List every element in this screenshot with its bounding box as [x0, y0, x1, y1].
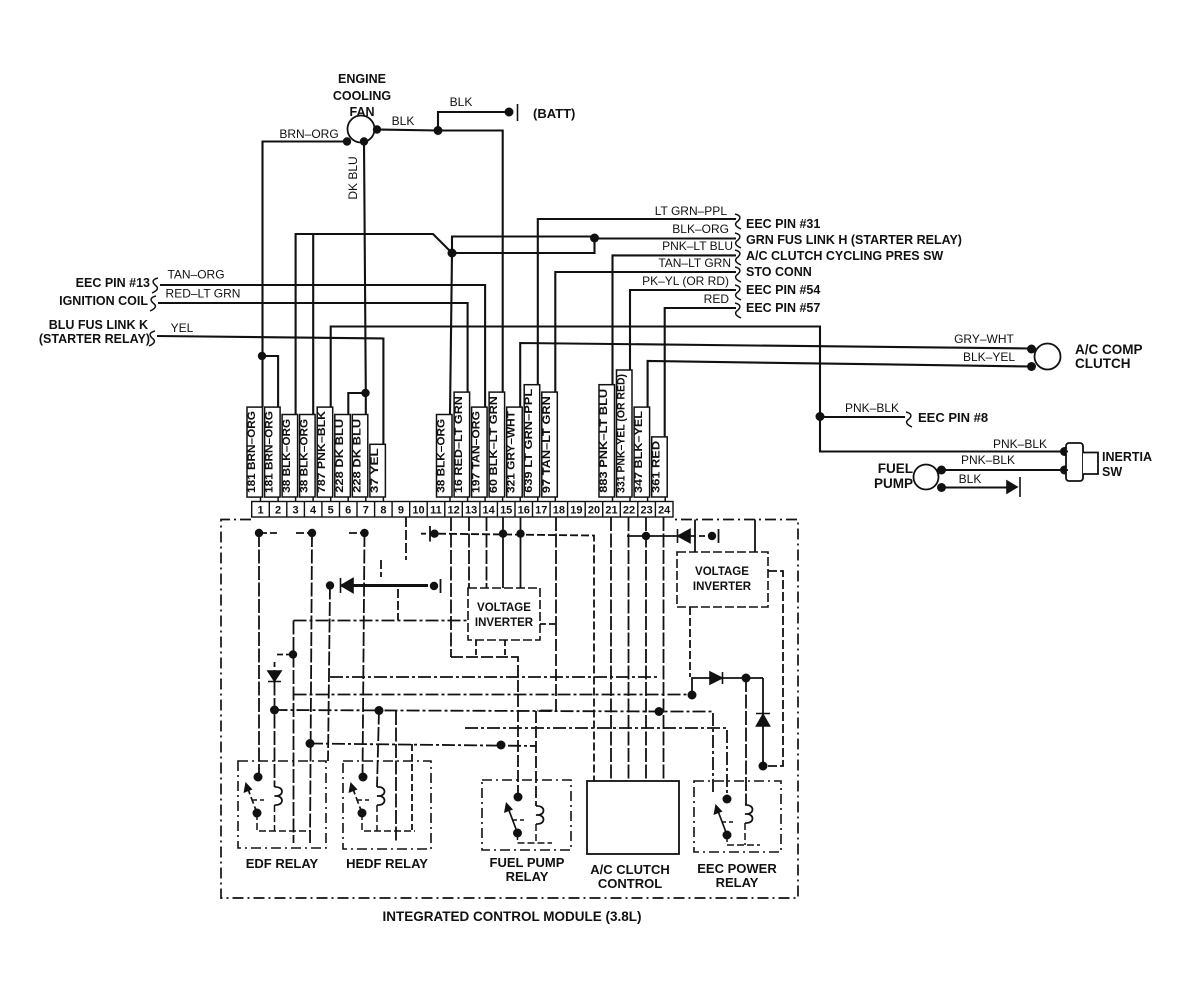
wire U1 bottom stub left — [475, 640, 477, 657]
relay K1 EDF box — [238, 761, 326, 848]
wire U2 feed right from top border — [754, 520, 756, 553]
relay K1 coil — [275, 787, 283, 805]
node diode D1 anode dot — [326, 581, 334, 589]
svg-text:INTEGRATED CONTROL MODULE (3.8: INTEGRATED CONTROL MODULE (3.8L) — [383, 909, 642, 924]
wire riser pin5 extension to EDF box — [328, 586, 330, 762]
wire riser pin23 extension to ACC — [645, 517, 647, 781]
node diode D3 cathode junction — [742, 674, 751, 683]
svg-text:5: 5 — [328, 505, 334, 517]
relay K3 link dash — [513, 819, 526, 821]
wire BLK-ORG junction to pin 11 riser — [450, 253, 452, 414]
wire BLK-ORG junction loop to label — [452, 237, 736, 254]
wire row C dash to diode D3 — [294, 694, 693, 696]
wire TAN-ORG to pin 13 — [160, 285, 485, 407]
svg-text:COOLING: COOLING — [333, 89, 391, 103]
wire fuel pump relay coil feed — [536, 624, 556, 806]
svg-text:PNK–BLK: PNK–BLK — [961, 453, 1015, 467]
svg-text:DK BLU: DK BLU — [346, 156, 360, 199]
node row1 pin1 junction — [255, 529, 263, 537]
node BATT terminal dot — [505, 108, 514, 117]
wire riser pin4 extension to row F — [310, 533, 312, 843]
node row1 pin14 junction — [499, 530, 507, 538]
connector symbol BLU FUS LINK K — [149, 331, 155, 346]
node EEC relay top-right junction — [759, 762, 768, 771]
wire riser pin17 extension to row G — [555, 517, 557, 624]
svg-text:BLK: BLK — [392, 114, 415, 128]
label voltage inverter U1 — [475, 602, 534, 629]
node row F fuel pump junction — [497, 741, 506, 750]
wire row H left riser — [293, 621, 295, 844]
inertia switch SW1 body — [1066, 443, 1083, 481]
svg-text:EEC PIN #31: EEC PIN #31 — [746, 217, 820, 231]
pin label boxes with wire codes — [246, 370, 667, 502]
svg-text:RED–LT GRN: RED–LT GRN — [166, 287, 241, 301]
wire diode D2 to terminal — [690, 535, 707, 537]
terminal bar diode D1 — [440, 579, 442, 593]
svg-text:A/C CLUTCH CYCLING PRES SW: A/C CLUTCH CYCLING PRES SW — [746, 249, 943, 263]
node row D right junction — [655, 707, 664, 716]
relay K2 bottom contact — [358, 809, 367, 818]
node row F left junction — [306, 739, 315, 748]
svg-text:21: 21 — [605, 505, 617, 517]
node riser pin1 junction — [258, 352, 266, 360]
relay K3 bottom contact — [513, 829, 522, 838]
svg-text:STO CONN: STO CONN — [746, 265, 812, 279]
node row1 pin15 junction — [516, 530, 524, 538]
pin number row cells 1-24 — [252, 502, 673, 518]
svg-text:347 BLK–YEL: 347 BLK–YEL — [633, 411, 645, 493]
wire BRN-ORG fan to riser — [263, 142, 348, 408]
wire row F branch into HEDF box — [411, 744, 413, 830]
relay K2 bottom leads — [362, 805, 415, 831]
diode D4 up pointing — [756, 714, 770, 727]
svg-text:PNK–BLK: PNK–BLK — [993, 437, 1047, 451]
wire riser pin14 extension to U1 — [502, 517, 504, 588]
svg-text:TAN–LT GRN: TAN–LT GRN — [658, 256, 731, 270]
A/C comp clutch coil circle — [1035, 344, 1061, 370]
wire GRY-WHT pin 15 to A/C comp clutch — [520, 343, 1031, 407]
connector symbol EEC PIN 57 — [735, 303, 741, 318]
svg-text:EEC PIN #54: EEC PIN #54 — [746, 283, 820, 297]
wire D5 to EDF coil — [274, 682, 276, 788]
ground fuel pump — [1007, 477, 1020, 497]
svg-text:BRN–ORG: BRN–ORG — [279, 127, 338, 141]
svg-text:LT GRN–PPL: LT GRN–PPL — [655, 204, 728, 218]
wire diode D1 dash tail — [424, 585, 430, 587]
node inertia switch upper terminal — [1060, 447, 1069, 456]
wire diode D1 output thick — [353, 584, 428, 587]
wire row1 jumper pin3-pin4 — [296, 532, 312, 534]
relay K1 armature with arrow — [248, 789, 257, 813]
wire riser pin22 extension to ACC — [628, 517, 630, 781]
node row1 right terminal dot — [708, 532, 716, 540]
node fan right terminal — [373, 125, 381, 133]
relay K1 bottom contact — [253, 809, 262, 818]
svg-text:11: 11 — [430, 505, 442, 517]
label A/C CLUTCH CONTROL — [590, 862, 669, 891]
svg-text:INERTIA: INERTIA — [1102, 450, 1152, 464]
wire row1 jumper pin1-pin2 — [259, 532, 277, 534]
wire row1 bus to ACC riser — [438, 534, 594, 781]
wire PK-YL pin 22 to EEC PIN 54 — [630, 290, 736, 370]
relay K2 link dash — [358, 799, 371, 801]
wire row B dash — [330, 676, 660, 678]
battery terminal bar — [517, 104, 519, 121]
wire row D dash — [275, 710, 714, 795]
wire hook to pin 6 riser — [348, 393, 366, 414]
relay K3 fuel pump box — [482, 780, 571, 850]
diode D3 right pointing — [710, 672, 723, 684]
wire TAN-LT GRN pin 17 to STO CONN — [555, 272, 736, 392]
svg-text:BLK–YEL: BLK–YEL — [963, 350, 1015, 364]
svg-text:6: 6 — [345, 505, 351, 517]
svg-text:361 RED: 361 RED — [651, 441, 663, 493]
node row1 pin23 junction — [642, 532, 650, 540]
relay K4 armature with arrow — [718, 811, 727, 835]
label voltage inverter U2 — [693, 566, 752, 593]
svg-text:17: 17 — [535, 505, 547, 517]
node EEC PIN 8 junction — [816, 412, 825, 421]
node diode D1 terminal dot — [430, 582, 438, 590]
relay K1 bottom leads — [257, 805, 310, 831]
svg-text:13: 13 — [465, 505, 477, 517]
node fan BRN-ORG terminal — [343, 137, 351, 145]
connector symbol EEC PIN 31 — [735, 214, 741, 229]
svg-text:A/C COMP: A/C COMP — [1075, 342, 1143, 357]
node BLK-ORG lower junction — [448, 249, 457, 258]
connector symbol GRN FUS LINK H — [735, 233, 741, 248]
relay K4 coil — [745, 805, 753, 823]
svg-text:INVERTER: INVERTER — [693, 581, 752, 593]
wire stub below diode row — [397, 589, 399, 620]
svg-text:37 YEL: 37 YEL — [369, 448, 381, 493]
wire row A to fuel pump relay contact — [451, 657, 518, 797]
node row1 pin4 junction — [308, 529, 316, 537]
svg-text:3: 3 — [293, 505, 299, 517]
label BLU FUS LINK K (STARTER RELAY) — [39, 318, 150, 346]
svg-text:EEC PIN #13: EEC PIN #13 — [76, 276, 150, 290]
wire riser pin21 extension to ACC — [610, 517, 612, 781]
voltage inverter U2 box right — [677, 552, 768, 607]
wire BLK junction down to pin 14 riser — [438, 131, 503, 393]
wire D5 upper stub — [274, 662, 276, 671]
svg-text:24: 24 — [658, 505, 671, 517]
relay K2 coil — [377, 787, 385, 805]
svg-text:321 GRY–WHT: 321 GRY–WHT — [506, 411, 518, 493]
svg-text:IGNITION COIL: IGNITION COIL — [59, 294, 148, 308]
relay K3 armature with arrow — [509, 809, 518, 833]
terminal bar row1 left — [421, 526, 430, 542]
wire stub pin 9-10 area — [405, 517, 407, 560]
relay K3 top contact — [514, 793, 523, 802]
wire PNK-BLK fuel pump to inertia switch — [942, 469, 1065, 471]
svg-text:INVERTER: INVERTER — [475, 617, 534, 629]
relay K2 armature with arrow — [353, 789, 362, 813]
relay K3 coil — [536, 806, 544, 824]
svg-text:8: 8 — [380, 505, 386, 517]
svg-text:RELAY: RELAY — [506, 869, 549, 884]
svg-text:HEDF RELAY: HEDF RELAY — [346, 856, 428, 871]
wire HEDF coil feed — [377, 711, 379, 788]
svg-text:GRY–WHT: GRY–WHT — [954, 332, 1014, 346]
node row H junction — [289, 650, 297, 658]
diode D5 down pointing — [268, 671, 281, 682]
svg-text:10: 10 — [412, 505, 424, 517]
wire BLK-YEL pin 23 to A/C comp clutch — [648, 361, 1031, 407]
wire PNK-BLK pin 5 to EEC PIN 8 junction — [331, 327, 820, 417]
connector symbol STO CONN — [735, 267, 741, 282]
motor M1 fan motor circle — [348, 116, 375, 143]
node BLK-ORG upper junction — [590, 234, 599, 243]
svg-text:1: 1 — [257, 505, 263, 517]
relay K4 bottom contact — [723, 831, 732, 840]
wire riser pin15 extension to U1 — [520, 517, 522, 588]
svg-text:15: 15 — [500, 505, 512, 517]
svg-text:228 DK BLU: 228 DK BLU — [334, 419, 346, 493]
svg-text:639 LT GRN–PPL: 639 LT GRN–PPL — [523, 388, 535, 492]
node inertia switch lower terminal — [1060, 466, 1069, 475]
wire row1 jumper pin6-pin7 — [349, 532, 365, 534]
svg-text:PNK–LT BLU: PNK–LT BLU — [662, 239, 733, 253]
svg-text:(BATT): (BATT) — [533, 106, 575, 121]
svg-text:60 BLK–LT GRN: 60 BLK–LT GRN — [488, 396, 500, 493]
svg-text:CONTROL: CONTROL — [598, 876, 662, 891]
wire row1 right segment — [627, 535, 677, 537]
svg-text:19: 19 — [570, 505, 582, 517]
svg-text:7: 7 — [363, 505, 369, 517]
terminal bar row1 right — [718, 529, 720, 543]
svg-text:FUEL PUMP: FUEL PUMP — [490, 855, 565, 870]
svg-text:331 PNK–YEL (OR RED): 331 PNK–YEL (OR RED) — [616, 374, 628, 493]
wire YEL to pin 8 — [157, 336, 383, 444]
wire row H junction stub — [277, 654, 293, 656]
node A/C clutch lower terminal — [1027, 362, 1036, 371]
label EEC POWER RELAY — [697, 861, 777, 890]
wire riser pin12 extension to U1 — [468, 517, 470, 588]
svg-text:ENGINE: ENGINE — [338, 72, 386, 86]
wire row C up to diode D3 — [692, 678, 710, 695]
relay K2 HEDF box — [343, 761, 431, 849]
wire EEC coil feed from D3 node — [745, 678, 747, 805]
label A/C COMP CLUTCH — [1075, 342, 1143, 371]
svg-text:PNK–BLK: PNK–BLK — [845, 401, 899, 415]
wire diode D3 to node — [723, 677, 763, 679]
wire riser pin13 extension to U1 — [486, 517, 488, 588]
svg-text:BLK: BLK — [450, 95, 473, 109]
svg-text:16 RED–LT GRN: 16 RED–LT GRN — [453, 396, 465, 493]
svg-text:BLK–ORG: BLK–ORG — [672, 222, 729, 236]
svg-text:RELAY: RELAY — [716, 875, 759, 890]
connector symbol ignition coil — [150, 296, 156, 311]
wire U2 feed left from top border — [694, 520, 696, 553]
node fan DK BLU terminal — [360, 137, 368, 145]
wire PNK-BLK junction to EEC PIN 8 — [820, 416, 905, 418]
A/C clutch control box — [587, 781, 679, 854]
svg-text:SW: SW — [1102, 465, 1122, 479]
svg-text:787 PNK–BLK: 787 PNK–BLK — [316, 411, 328, 493]
relay K4 link dash — [722, 821, 735, 823]
svg-text:VOLTAGE: VOLTAGE — [695, 566, 749, 578]
label FUEL PUMP RELAY — [490, 855, 565, 884]
svg-text:(STARTER RELAY): (STARTER RELAY) — [39, 332, 150, 346]
wire BLK-ORG pin 3 and pin 4 riser top — [296, 234, 452, 414]
connector symbol A/C clutch cycling pres sw — [735, 250, 741, 265]
svg-text:PK–YL (OR RD): PK–YL (OR RD) — [642, 274, 729, 288]
wire DK BLU fan to pin 7 riser — [364, 142, 366, 415]
wire hook to pin 2 riser — [263, 356, 279, 407]
node row D HEDF junction — [375, 706, 384, 715]
node row D left junction — [270, 706, 279, 715]
wire row H dash — [294, 620, 469, 622]
motor M1 ENGINE COOLING FAN label — [333, 72, 391, 119]
relay K4 top contact — [723, 795, 732, 804]
svg-text:38 BLK–ORG: 38 BLK–ORG — [281, 419, 293, 493]
svg-text:38 BLK–ORG: 38 BLK–ORG — [436, 419, 448, 493]
wire BLK junction to BATT terminal — [438, 112, 509, 131]
node riser pin7 junction — [361, 389, 369, 397]
svg-text:20: 20 — [588, 505, 600, 517]
svg-text:883 PNK–LT BLU: 883 PNK–LT BLU — [598, 389, 610, 493]
svg-text:YEL: YEL — [171, 321, 194, 335]
wire stub pin 8 area below strip — [380, 560, 382, 577]
svg-text:TAN–ORG: TAN–ORG — [167, 268, 224, 282]
relay K1 link dash — [253, 799, 266, 801]
node fuel pump lower terminal — [937, 483, 946, 492]
node row1 terminal dot — [430, 530, 438, 538]
wire U2 output right loop to EEC relay node — [763, 571, 783, 766]
svg-text:18: 18 — [553, 505, 565, 517]
node row1 pin7 junction — [360, 529, 368, 537]
svg-text:GRN FUS LINK H (STARTER RELAY): GRN FUS LINK H (STARTER RELAY) — [746, 233, 962, 247]
motor M2 fuel pump circle — [914, 465, 939, 490]
connector symbol EEC PIN 54 — [735, 285, 741, 300]
svg-text:181 BRN–ORG: 181 BRN–ORG — [246, 411, 258, 493]
connector symbol EEC PIN #13 — [152, 278, 158, 293]
wire U1 bottom stub right — [504, 640, 506, 657]
svg-text:RED: RED — [704, 292, 730, 306]
svg-text:BLK: BLK — [959, 472, 982, 486]
integrated control module boundary box — [221, 520, 798, 899]
wire BLK fan to junction — [377, 130, 438, 131]
svg-text:VOLTAGE: VOLTAGE — [477, 602, 531, 614]
wire RED pin 24 to EEC PIN 57 — [665, 308, 736, 437]
svg-text:PUMP: PUMP — [874, 476, 913, 491]
wire PNK-LT BLU pin 21 to A/C clutch cycling press sw — [613, 255, 737, 385]
node A/C clutch upper terminal — [1027, 345, 1036, 354]
wire riser pin1 extension to EDF contact — [258, 533, 260, 777]
label FUEL PUMP — [874, 461, 913, 491]
svg-text:38 BLK–ORG: 38 BLK–ORG — [299, 419, 311, 493]
svg-text:4: 4 — [310, 505, 317, 517]
wire PNK-BLK junction down to inertia switch — [820, 417, 1065, 452]
wire BLK fuel pump to ground — [942, 486, 1008, 488]
svg-text:16: 16 — [518, 505, 530, 517]
wire U2 bottom stub — [689, 607, 691, 677]
wire LT GRN-PPL pin 16 to EEC PIN 31 — [538, 219, 736, 385]
wire row F dash — [310, 744, 536, 747]
svg-text:14: 14 — [482, 505, 495, 517]
node fuel pump upper terminal — [937, 466, 946, 475]
svg-text:2: 2 — [275, 505, 281, 517]
svg-text:12: 12 — [447, 505, 459, 517]
svg-text:197 TAN–ORG: 197 TAN–ORG — [471, 411, 483, 493]
svg-text:22: 22 — [623, 505, 635, 517]
svg-text:9: 9 — [398, 505, 404, 517]
svg-text:23: 23 — [640, 505, 652, 517]
relay K4 bottom leads — [727, 823, 760, 845]
svg-text:181 BRN–ORG: 181 BRN–ORG — [264, 411, 276, 493]
label INERTIA SW — [1102, 450, 1152, 479]
svg-text:EEC PIN #57: EEC PIN #57 — [746, 301, 820, 315]
wire riser pin24 extension to ACC — [663, 517, 665, 781]
svg-text:CLUTCH: CLUTCH — [1075, 356, 1131, 371]
diode D1 left pointing — [341, 578, 354, 593]
svg-text:A/C CLUTCH: A/C CLUTCH — [590, 862, 669, 877]
relay K2 top contact — [359, 773, 368, 782]
svg-text:EEC POWER: EEC POWER — [697, 861, 777, 876]
node BLK junction — [434, 126, 443, 135]
svg-text:EDF RELAY: EDF RELAY — [246, 856, 319, 871]
svg-text:97 TAN–LT GRN: 97 TAN–LT GRN — [541, 396, 553, 493]
inertia switch connecting line — [1065, 452, 1069, 471]
wire riser pin11 extension to row A — [450, 517, 452, 657]
diode D2 left pointing row1 — [678, 529, 691, 543]
wire U1 right stub row G — [540, 623, 556, 625]
wire HEDF box crossing vertical — [395, 711, 397, 843]
wire riser pin7 extension to HEDF contact — [363, 533, 365, 777]
svg-text:EEC PIN #8: EEC PIN #8 — [918, 410, 988, 425]
wire diode D4 branch down — [762, 678, 764, 766]
svg-text:BLU FUS LINK K: BLU FUS LINK K — [49, 318, 148, 332]
voltage inverter U1 box left — [468, 588, 540, 640]
svg-text:FUEL: FUEL — [878, 461, 913, 476]
node row C junction — [688, 691, 697, 700]
relay K4 EEC power box — [694, 781, 781, 852]
connector symbol EEC PIN 8 — [906, 412, 912, 427]
relay K3 bottom leads — [518, 824, 553, 843]
svg-text:228 DK BLU: 228 DK BLU — [351, 419, 363, 493]
wire row E dash to EEC contact — [465, 728, 727, 799]
relay K1 top contact — [254, 773, 263, 782]
wire RED-LT GRN to pin 12 — [158, 303, 468, 392]
